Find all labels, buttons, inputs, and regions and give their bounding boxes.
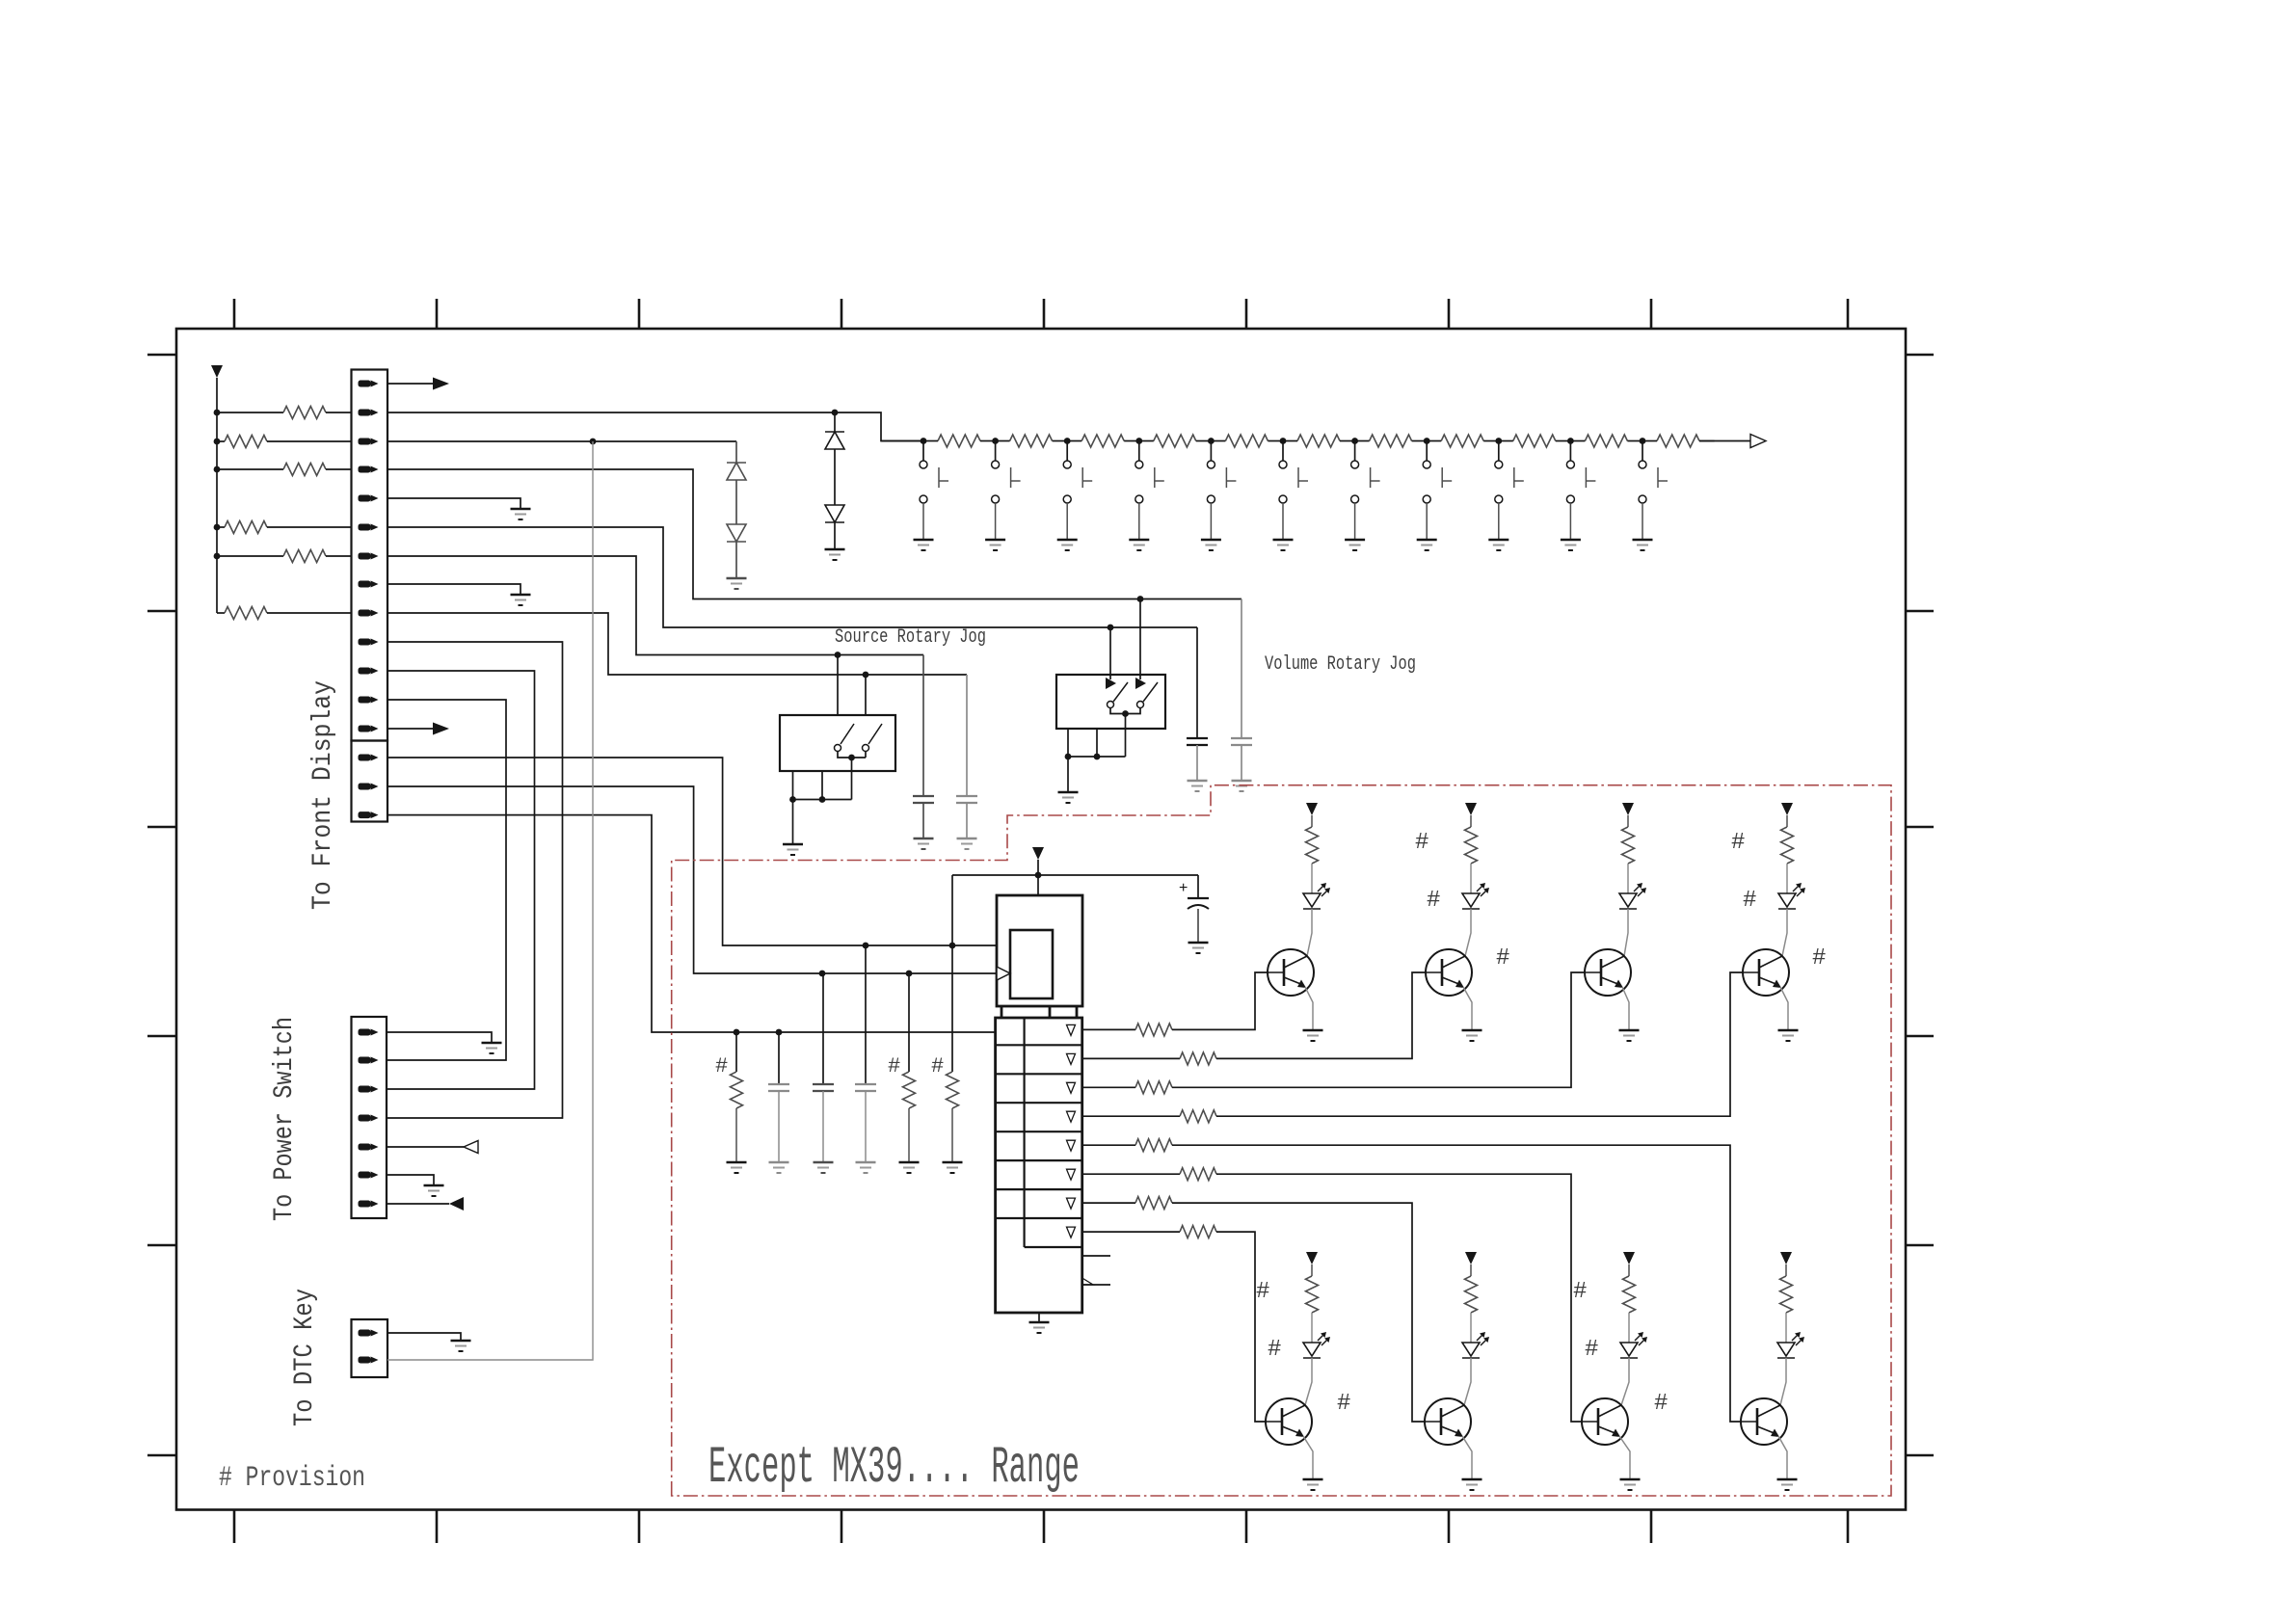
svg-text:#: #: [931, 1054, 944, 1078]
svg-text:#: #: [1256, 1279, 1269, 1305]
svg-text:#: #: [1427, 888, 1440, 914]
svg-text:#: #: [1731, 830, 1745, 856]
svg-text:Except MX39.... Range: Except MX39.... Range: [708, 1439, 1080, 1498]
svg-text:To Front Display: To Front Display: [308, 680, 338, 910]
svg-text:#: #: [715, 1054, 728, 1078]
svg-text:#: #: [1496, 945, 1509, 971]
svg-text:Source Rotary Jog: Source Rotary Jog: [835, 626, 986, 649]
svg-text:#: #: [888, 1054, 900, 1078]
svg-text:To Power Switch: To Power Switch: [270, 1017, 300, 1221]
svg-text:Volume Rotary Jog: Volume Rotary Jog: [1265, 653, 1416, 676]
svg-text:To DTC Key: To DTC Key: [290, 1289, 320, 1426]
svg-text:#: #: [1654, 1391, 1668, 1417]
svg-text:# Provision: # Provision: [219, 1462, 365, 1495]
svg-text:#: #: [1337, 1391, 1350, 1417]
svg-text:#: #: [1415, 830, 1428, 856]
svg-text:+: +: [1179, 880, 1188, 896]
svg-text:#: #: [1573, 1279, 1587, 1305]
svg-text:#: #: [1268, 1337, 1281, 1363]
svg-text:#: #: [1743, 888, 1756, 914]
svg-text:#: #: [1812, 945, 1826, 971]
svg-text:#: #: [1585, 1337, 1598, 1363]
